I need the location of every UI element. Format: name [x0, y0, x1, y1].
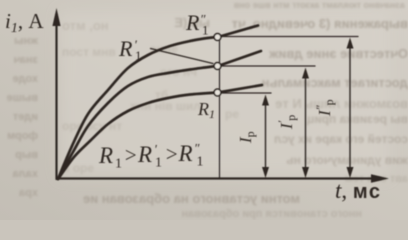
label Ip (rotated)	[236, 131, 257, 144]
svg-text:пост мнв: пост мнв	[62, 45, 116, 59]
label I''p (rotated)	[313, 99, 336, 117]
plot interior lighter paper	[60, 12, 388, 176]
y axis arrowhead	[52, 8, 60, 26]
svg-text:R: R	[185, 10, 200, 35]
svg-text:ходе: ходе	[12, 73, 38, 85]
svg-text:1: 1	[155, 156, 162, 171]
curve R'1 continuation after node	[218, 51, 261, 66]
double arrow I'p	[305, 73, 307, 172]
svg-text:нного становится при образован: нного становится при образован	[181, 208, 362, 220]
curve R1 continuation after node	[218, 85, 262, 93]
vertical thin line through nodes	[219, 37, 221, 179]
svg-text:мотни уставного на образован: мотни уставного на образован ие	[83, 191, 300, 206]
curve R1 (bottom)	[58, 93, 218, 180]
svg-text:R: R	[137, 142, 152, 167]
x axis arrowhead	[371, 174, 389, 183]
leader line R'1	[151, 49, 214, 64]
double arrow I''p	[349, 43, 351, 172]
svg-text:отм ,он: отм ,он	[62, 18, 109, 33]
dashed level line I''p	[221, 36, 358, 38]
svg-text:>: >	[165, 142, 179, 166]
x axis (t)	[57, 177, 375, 179]
svg-text:R: R	[98, 143, 113, 168]
svg-text:R: R	[178, 141, 193, 166]
svg-text:1: 1	[197, 155, 204, 170]
svg-text:выше: выше	[7, 92, 38, 104]
svg-text:″: ″	[194, 141, 200, 156]
node circle top	[214, 34, 221, 41]
svg-text:1: 1	[202, 23, 209, 38]
svg-text:состей его каре их усл: состей его каре их усл	[274, 132, 408, 146]
svg-text:1: 1	[115, 157, 122, 172]
svg-text:хала: хала	[12, 168, 38, 180]
svg-text:идет: идет	[12, 111, 38, 123]
svg-text:R: R	[118, 36, 133, 61]
svg-text:′: ′	[154, 142, 157, 157]
svg-text:азначвно тюяламт акзотг мтн вш: азначвно тюяламт акзотг мтн вше онв	[233, 0, 405, 10]
svg-text:знач: знач	[14, 54, 38, 66]
y axis (i1)	[55, 14, 57, 179]
svg-text:ре: ре	[225, 107, 239, 121]
svg-text:форм: форм	[7, 130, 38, 142]
main figure	[52, 8, 389, 183]
svg-text:выражения (3 очевидно, чт: выражения (3 очевидно, чт	[232, 16, 408, 31]
double arrow Ip	[265, 100, 267, 172]
svg-text:хра: хра	[18, 187, 38, 199]
label inequality R1>R'1>R''1	[98, 141, 204, 172]
svg-text:достигает максимальн: достигает максимальн	[262, 75, 408, 90]
svg-text:выр: выр	[15, 149, 38, 161]
dashed level line I'p	[221, 65, 315, 67]
svg-text:t, мс: t, мс	[335, 178, 382, 203]
svg-text:жны: жны	[14, 35, 39, 47]
svg-text:Очтествие эние движ: Очтествие эние движ	[268, 46, 408, 61]
svg-text:1: 1	[135, 48, 142, 63]
curve R'1 (middle)	[58, 66, 218, 179]
svg-text:возможни лишь N те: возможни лишь N те	[275, 96, 408, 111]
node circle middle	[214, 63, 221, 70]
curve R''1 continuation after node	[218, 26, 258, 38]
curve R''1 (top)	[58, 37, 218, 179]
label I'p (rotated)	[275, 115, 298, 130]
svg-text:>: >	[124, 143, 138, 167]
dashed level line Ip	[221, 92, 271, 94]
svg-text:жив удинамучого нь: жив удинамучого нь	[286, 153, 408, 167]
node circle bottom	[214, 89, 221, 96]
